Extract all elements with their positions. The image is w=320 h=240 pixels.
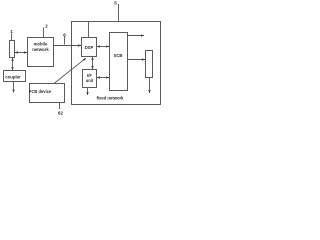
wire: PCB device diagonal to DSP (arrow) — [54, 58, 86, 83]
wire: SCB right upper (arrow) — [128, 35, 145, 37]
wire: DSP up to outer box top — [88, 22, 90, 38]
wire: I/F unit to SCB (double arrow) — [97, 77, 109, 79]
block: PCB device — [30, 84, 65, 103]
wire: PCB device down leader to label 62 — [59, 103, 61, 110]
wire: antenna to mobile network (double arrow) — [15, 52, 27, 54]
wire: leader for label 6 to mobile-DSP wire — [64, 37, 66, 45]
wire: antenna to coupler (double arrow) — [12, 58, 14, 70]
wire: tall rect down (arrow) — [149, 78, 151, 94]
block: tall line-interface rect — [146, 51, 153, 78]
svg-text:unit: unit — [86, 78, 94, 83]
svg-text:PCB device: PCB device — [29, 89, 52, 94]
wire: DSP to I/F unit (double arrow) — [92, 57, 94, 69]
block: coupler — [4, 71, 26, 82]
outer box: base station body — [72, 22, 161, 105]
svg-text:62: 62 — [58, 111, 64, 116]
block: DSP — [82, 38, 97, 57]
wire: I/F unit down (arrow) — [87, 88, 89, 95]
wire: DSP to SCB (double arrow) — [97, 46, 109, 48]
block: I/F unit — [83, 70, 97, 88]
block: SCB — [110, 33, 128, 91]
wire: leader for label 5 to outer box top — [118, 4, 120, 22]
svg-text:2: 2 — [45, 24, 48, 29]
svg-text:fixed network: fixed network — [97, 95, 125, 100]
wire: leader for label 2 to mobile network — [43, 28, 45, 38]
block: mobile network 2 — [28, 38, 54, 67]
svg-text:network: network — [32, 47, 49, 52]
svg-text:6: 6 — [63, 33, 66, 38]
wire: leader for label 1 to antenna — [11, 34, 13, 41]
svg-text:coupler: coupler — [5, 74, 21, 79]
svg-text:1: 1 — [10, 29, 13, 34]
antenna element 1 (small vertical rect) — [10, 41, 15, 58]
svg-text:SCB: SCB — [113, 53, 122, 58]
wire: SCB to tall rect (arrow) — [128, 59, 146, 61]
wire: coupler down to phone line (arrow) — [13, 82, 15, 93]
wire: mobile network to DSP (arrow) — [54, 45, 82, 47]
svg-text:5: 5 — [114, 1, 117, 6]
svg-text:DSP: DSP — [85, 45, 94, 50]
